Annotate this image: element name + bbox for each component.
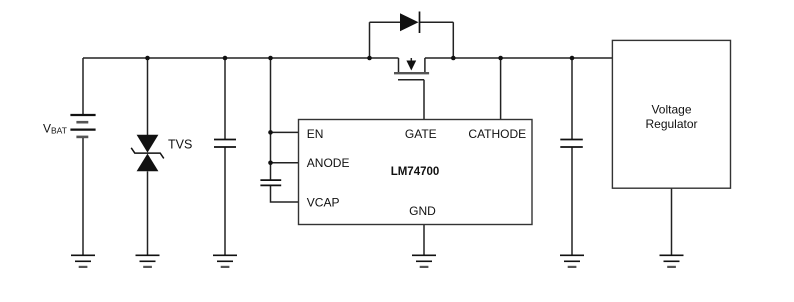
wire TVS bottom: [147, 171, 149, 255]
wire CATHODE to IC: [500, 58, 502, 120]
node CATHODE junction: [498, 56, 503, 61]
node MOSFET source junction: [451, 56, 456, 61]
ground (battery): [71, 255, 95, 267]
node TVS junction: [145, 56, 150, 61]
wire cap C2 top: [571, 58, 573, 140]
node MOSFET drain junction: [367, 56, 372, 61]
ground (C2): [560, 255, 584, 267]
node ANODE pin junction: [268, 161, 273, 166]
svg-text:ANODE: ANODE: [307, 156, 350, 170]
wire top rail right segment: [425, 57, 613, 59]
svg-text:GATE: GATE: [405, 127, 437, 141]
svg-text:VCAP: VCAP: [307, 196, 340, 210]
svg-text:GND: GND: [409, 204, 436, 218]
TVS diode D1: [131, 135, 164, 172]
voltage regulator block: [612, 40, 730, 188]
drain stub: [398, 58, 400, 72]
channel bar: [394, 72, 429, 74]
wire battery top: [82, 58, 84, 115]
transistor Q1 MOSFET: [394, 58, 429, 80]
wire top rail left segment: [83, 57, 399, 59]
source stub: [424, 58, 426, 72]
wire cap C1 top: [224, 58, 226, 140]
ground (TVS): [136, 255, 160, 267]
capacitor C_VCAP: [260, 180, 281, 185]
wire IC GND: [423, 225, 425, 256]
capacitor C1: [214, 140, 236, 148]
op-amp U1 LM74700 box: [299, 120, 533, 225]
wire TVS top: [147, 58, 149, 135]
svg-text:EN: EN: [307, 127, 324, 141]
battery VBAT: [70, 115, 95, 137]
node C2 junction: [570, 56, 575, 61]
ground (IC GND): [412, 255, 436, 267]
wire diode branch right: [452, 22, 454, 58]
body arrow head: [406, 61, 416, 71]
svg-text:TVS: TVS: [168, 138, 192, 152]
ground (regulator): [660, 255, 684, 267]
wire diode branch left: [369, 22, 371, 58]
gate bar: [398, 79, 424, 81]
wire battery bottom: [82, 137, 84, 255]
capacitor C2: [560, 140, 583, 148]
wire diode branch top right: [420, 21, 454, 23]
ground (C1): [213, 255, 237, 267]
body arrow stem: [410, 58, 412, 62]
svg-text:CATHODE: CATHODE: [468, 127, 526, 141]
svg-text:VBAT: VBAT: [43, 121, 67, 135]
wire EN/ANODE drop: [270, 58, 272, 180]
node junction dots: [145, 56, 574, 165]
wire VCAP cap bottom: [271, 185, 299, 202]
wire regulator ground: [671, 188, 673, 255]
svg-text:Voltage: Voltage: [651, 103, 691, 117]
diode D2 (external schottky): [400, 12, 420, 34]
wire cap C1 bottom: [224, 147, 226, 255]
wire diode branch top left: [370, 21, 401, 23]
wire EN pin: [271, 131, 299, 133]
svg-text:Regulator: Regulator: [645, 117, 697, 131]
svg-text:LM74700: LM74700: [391, 166, 440, 178]
node EN/ANODE junction: [268, 56, 273, 61]
node C1 junction: [223, 56, 228, 61]
wire cap C2 bottom: [571, 147, 573, 255]
wire gate to IC: [423, 80, 425, 120]
wire ANODE pin: [271, 162, 299, 164]
node EN pin junction: [268, 130, 273, 135]
